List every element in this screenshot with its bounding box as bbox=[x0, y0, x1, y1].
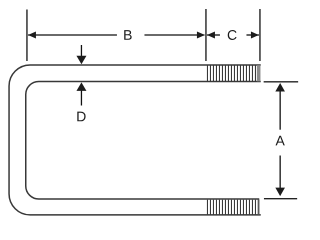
arrow C left bbox=[207, 32, 215, 39]
extension line C left bbox=[205, 9, 207, 61]
dimension line A bbox=[279, 91, 281, 130]
U-bolt outer profile bbox=[9, 65, 261, 215]
arrow C right bbox=[251, 32, 259, 39]
dimension line B bbox=[28, 34, 117, 36]
arrow D up bbox=[76, 82, 86, 91]
label B bbox=[124, 30, 131, 40]
arrow B right bbox=[197, 32, 205, 39]
arrow A up bbox=[275, 83, 285, 92]
threads on top leg bbox=[207, 66, 255, 82]
threads on bottom leg bbox=[207, 200, 255, 215]
thread end cap top bbox=[257, 65, 261, 81]
extension line A top bbox=[264, 81, 299, 83]
dimension line C bbox=[207, 34, 220, 36]
extension line A bottom bbox=[264, 198, 297, 200]
dimension D up arrow shaft bbox=[80, 91, 82, 106]
thread end cap bottom bbox=[258, 200, 260, 215]
extension line B left bbox=[26, 10, 28, 62]
arrow A down bbox=[275, 188, 285, 197]
extension line C right bbox=[259, 9, 261, 61]
arrow D down bbox=[76, 56, 86, 65]
label A bbox=[276, 136, 285, 146]
label D bbox=[77, 112, 85, 122]
label C bbox=[228, 30, 237, 40]
dimension D down arrow shaft bbox=[80, 45, 82, 57]
arrow B left bbox=[28, 32, 36, 39]
U-bolt inner profile bbox=[26, 82, 261, 200]
